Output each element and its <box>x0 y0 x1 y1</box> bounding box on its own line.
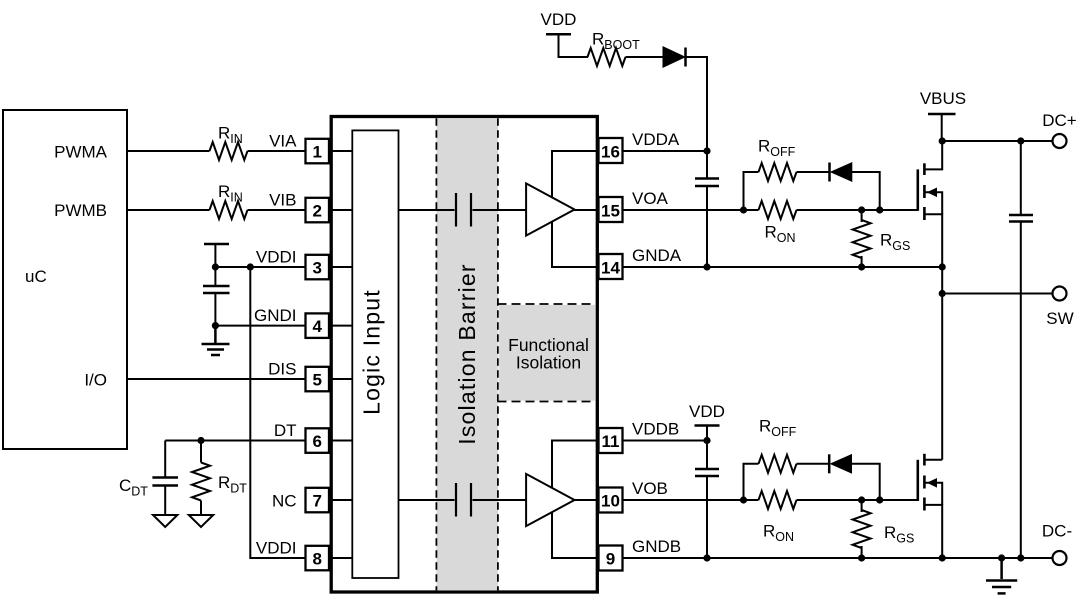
svg-text:DIS: DIS <box>268 360 296 379</box>
svg-text:DT: DT <box>274 421 297 440</box>
ground power (earth) <box>986 558 1017 593</box>
ground GNDI <box>202 326 230 355</box>
wire PWMA to pin 1 <box>127 150 210 152</box>
wire VBUS to drain <box>941 114 943 141</box>
svg-text:RON: RON <box>765 223 796 246</box>
pin 2 <box>306 198 330 223</box>
wire diode B to right riser <box>852 464 880 500</box>
junction GNDA / bypass cap <box>703 263 710 270</box>
svg-text:VDD: VDD <box>689 402 725 421</box>
driver B supply feed from pin 11 <box>552 441 597 488</box>
capacitor isolation A <box>455 193 457 227</box>
resistor RGS (B) <box>861 500 863 512</box>
resistor RDT <box>200 441 202 463</box>
junction GNDI <box>212 322 219 329</box>
isolation barrier dashed line left <box>435 118 437 590</box>
svg-text:4: 4 <box>312 317 322 336</box>
svg-text:VBUS: VBUS <box>920 89 966 108</box>
junction GNDA / Q1 source <box>939 263 946 270</box>
pin 5 <box>306 367 330 392</box>
junction VDDI rail tap <box>247 263 254 270</box>
svg-text:RDT: RDT <box>218 473 247 496</box>
node SW <box>939 290 946 297</box>
driver A ground feed to pin 14 <box>552 222 597 267</box>
svg-text:SW: SW <box>1046 309 1073 328</box>
wire SW rail <box>942 293 1052 295</box>
transistor Q2 (low-side MOSFET) <box>918 454 942 558</box>
wire VDD to RBOOT <box>559 34 589 57</box>
svg-text:CDT: CDT <box>119 476 148 499</box>
svg-text:VIB: VIB <box>269 191 296 210</box>
capacitor CDT <box>164 441 166 478</box>
junction VOB / ROFF right <box>876 496 883 503</box>
pin 8 <box>306 546 330 571</box>
svg-text:VDDI: VDDI <box>256 248 297 267</box>
wire driver B output to pin 10 <box>574 499 597 501</box>
resistor RON (B) <box>759 491 797 509</box>
svg-text:3: 3 <box>312 258 321 277</box>
junction GNDB / Q2 source <box>939 554 946 561</box>
svg-text:PWMB: PWMB <box>54 201 107 220</box>
wire DT row to pin 6 <box>165 440 304 442</box>
junction VDDI bypass top <box>212 263 219 270</box>
svg-text:PWMA: PWMA <box>54 142 108 161</box>
functional isolation dashed top <box>498 303 596 305</box>
svg-text:VOA: VOA <box>632 189 669 208</box>
wire diode A to right riser <box>852 172 880 210</box>
wire VOA row pin15 to gate <box>623 209 759 211</box>
isolation barrier dashed line right <box>497 118 499 590</box>
wire DIS row (I/O to pin 5) <box>127 378 305 380</box>
junction GNDB / bypass cap <box>703 554 710 561</box>
wire ROFF to diode A <box>797 171 830 173</box>
capacitor VDDA bypass <box>706 151 708 179</box>
svg-text:9: 9 <box>606 549 615 568</box>
wire logic to isolation cap A (row 2) <box>398 209 455 211</box>
svg-text:DC+: DC+ <box>1042 111 1077 130</box>
wire GNDI row to pin 4 <box>215 325 304 327</box>
svg-text:uC: uC <box>25 267 47 286</box>
wire VDDI vertical pin3 to pin8 <box>250 267 304 558</box>
wire cap B to driver B <box>473 499 527 501</box>
driver B ground feed to pin 9 <box>552 512 597 558</box>
wire bar to VDDI node <box>214 244 216 267</box>
resistor RON (A) <box>759 201 797 219</box>
pin 10 <box>599 488 623 513</box>
resistor ROFF (A) <box>759 163 797 181</box>
pin 9 <box>599 546 623 571</box>
capacitor DC link <box>1020 141 1022 215</box>
svg-text:Isolation: Isolation <box>516 353 581 373</box>
svg-text:8: 8 <box>312 549 321 568</box>
svg-text:7: 7 <box>312 491 321 510</box>
terminal SW <box>1053 287 1067 301</box>
svg-text:ROFF: ROFF <box>758 137 796 160</box>
svg-text:GNDB: GNDB <box>632 537 681 556</box>
transistor Q1 (high-side MOSFET) <box>918 141 942 294</box>
pin 6 <box>306 428 330 453</box>
wire VDDI row to pin 3 <box>215 266 304 268</box>
junction VOB / ROFF left <box>740 496 747 503</box>
svg-text:6: 6 <box>312 432 321 451</box>
svg-text:RGS: RGS <box>884 523 914 546</box>
svg-text:RBOOT: RBOOT <box>592 30 640 53</box>
svg-text:DC-: DC- <box>1042 522 1072 541</box>
junction VDDB node <box>703 437 710 444</box>
pin 1 <box>306 139 330 164</box>
uC block <box>3 110 127 449</box>
wire ROFF to diode B <box>797 463 830 465</box>
resistor RIN (B) <box>210 201 248 219</box>
wire GNDB / DC- rail <box>623 557 1052 559</box>
wire RBOOT to diode <box>626 56 664 58</box>
svg-text:15: 15 <box>601 201 620 220</box>
pin 11 <box>599 428 623 453</box>
resistor RGS (A) <box>861 210 863 222</box>
wire VDD to VDDB node <box>706 426 708 441</box>
ground RDT (triangle) <box>189 515 213 527</box>
wire VDDA row pin16 to node <box>623 150 707 152</box>
pin stubs left (1-8) <box>331 151 353 558</box>
pin 14 <box>599 254 623 279</box>
svg-text:RON: RON <box>763 522 794 545</box>
svg-text:RGS: RGS <box>880 231 910 254</box>
junction DT / RDT <box>197 437 204 444</box>
pin 4 <box>306 313 330 338</box>
pin 3 <box>306 255 330 279</box>
terminal DC- <box>1053 551 1067 565</box>
svg-text:GNDA: GNDA <box>632 246 682 265</box>
driver B (triangle) <box>526 474 574 526</box>
svg-text:RIN: RIN <box>218 124 243 147</box>
body arrow Q2 <box>927 478 937 488</box>
wire VDDB row pin11 to node <box>623 440 707 442</box>
svg-text:10: 10 <box>601 491 620 510</box>
svg-text:VDD: VDD <box>541 10 577 29</box>
svg-text:14: 14 <box>601 258 620 277</box>
wire logic to isolation cap B (row 7) <box>398 499 455 501</box>
svg-text:Isolation Barrier: Isolation Barrier <box>454 263 480 444</box>
wire diode to VDDA node <box>686 57 708 151</box>
junction DC+ / Q1 drain <box>939 137 946 144</box>
pin 7 <box>306 488 330 513</box>
junction VOA / ROFF left <box>740 206 747 213</box>
VDDI supply bar (left bypass) <box>204 243 229 246</box>
svg-text:I/O: I/O <box>84 370 107 389</box>
svg-text:5: 5 <box>312 370 321 389</box>
wire switch node vertical (Q1 source to Q2 drain) <box>941 294 943 460</box>
ROFF branch B: left riser <box>744 464 759 500</box>
IC body U1 <box>331 117 597 593</box>
svg-text:VIA: VIA <box>269 132 297 151</box>
isolation barrier shaded band <box>436 118 498 590</box>
svg-text:RIN: RIN <box>218 182 243 205</box>
svg-text:2: 2 <box>312 201 321 220</box>
diode ROFF A <box>828 163 831 182</box>
junction DC- / link cap <box>1017 554 1024 561</box>
svg-text:GNDI: GNDI <box>254 306 297 325</box>
wire PWMB to pin 2 <box>127 209 210 211</box>
wire cap A to driver A <box>473 209 527 211</box>
terminal DC+ <box>1053 134 1067 148</box>
resistor RIN (A) <box>210 142 248 160</box>
capacitor VDDI bypass <box>214 267 216 286</box>
driver A supply feed from pin 16 <box>552 151 597 197</box>
pin 16 <box>599 138 623 163</box>
driver A (triangle) <box>526 183 574 235</box>
svg-text:16: 16 <box>601 142 620 161</box>
junction VOA / ROFF right <box>876 206 883 213</box>
wire GNDA row pin14 to source <box>623 266 942 268</box>
resistor ROFF (B) <box>759 455 797 473</box>
wire driver A output to pin 15 <box>574 209 597 211</box>
functional isolation shaded box <box>499 305 596 401</box>
junction VOA / RGS top <box>858 206 865 213</box>
svg-text:VDDB: VDDB <box>632 420 679 439</box>
junction DC+ / link cap <box>1017 137 1024 144</box>
svg-text:ROFF: ROFF <box>759 417 797 440</box>
ROFF branch A: left riser <box>744 172 759 210</box>
svg-text:11: 11 <box>602 432 620 451</box>
junction VDDA node <box>703 147 710 154</box>
capacitor VDDB bypass <box>706 441 708 470</box>
body arrow Q1 <box>927 188 937 198</box>
resistor RBOOT <box>588 48 626 66</box>
wire DC+ rail <box>942 140 1052 142</box>
svg-text:1: 1 <box>312 142 321 161</box>
junction GNDA / RGS bottom <box>858 263 865 270</box>
svg-text:VDDI: VDDI <box>256 539 297 558</box>
junction GNDB / RGS bottom <box>858 554 865 561</box>
svg-text:Logic Input: Logic Input <box>359 289 385 415</box>
logic input box <box>352 130 398 578</box>
junction DC- / earth ground <box>998 554 1005 561</box>
svg-text:VDDA: VDDA <box>632 130 680 149</box>
pin 15 <box>599 197 623 222</box>
junction VOB / RGS top <box>858 496 865 503</box>
capacitor isolation B <box>455 483 457 517</box>
ground CDT (triangle) <box>153 515 177 527</box>
diode bootstrap <box>663 47 685 67</box>
wire VOB row pin10 to gate <box>623 499 759 501</box>
svg-text:NC: NC <box>272 491 297 510</box>
functional isolation dashed bottom <box>498 401 596 403</box>
diode ROFF B <box>828 454 831 473</box>
svg-text:VOB: VOB <box>632 479 668 498</box>
